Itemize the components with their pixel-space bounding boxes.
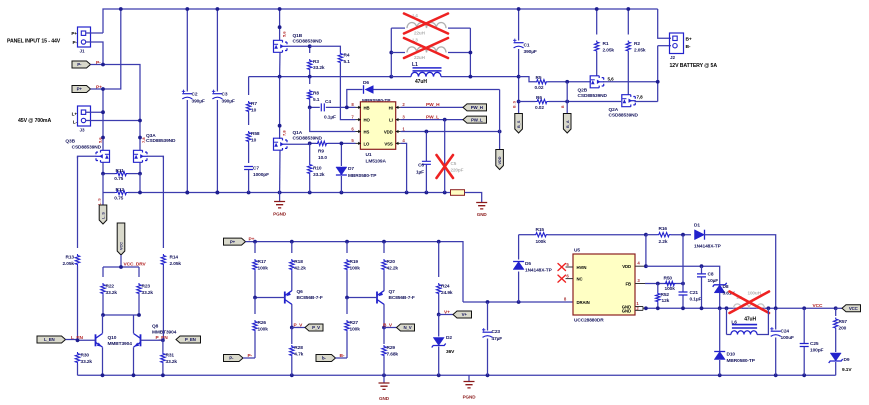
svg-text:VCC: VCC	[813, 303, 823, 309]
svg-text:PGND: PGND	[463, 395, 477, 400]
svg-text:P-: P-	[96, 60, 101, 66]
svg-text:C2: C2	[192, 92, 198, 98]
svg-text:VSS: VSS	[384, 141, 393, 146]
wire J1 P- pin down	[86, 42, 103, 65]
svg-text:C23: C23	[492, 329, 501, 335]
svg-text:LI: LI	[389, 118, 393, 123]
svg-text:DRAIN: DRAIN	[577, 300, 590, 305]
resistor R8	[309, 77, 311, 84]
resistor R9	[316, 141, 328, 145]
svg-text:C1: C1	[524, 42, 530, 48]
svg-text:7.68k: 7.68k	[387, 351, 399, 357]
svg-text:P+: P+	[96, 85, 102, 91]
svg-text:R50: R50	[664, 276, 673, 282]
svg-text:U1: U1	[366, 152, 372, 158]
svg-text:L6: L6	[731, 319, 737, 325]
svg-text:R58: R58	[251, 131, 260, 137]
wire switch-node mid rail	[249, 76, 392, 78]
capacitor C8	[701, 266, 703, 273]
svg-text:L_S: L_S	[102, 212, 106, 219]
svg-text:2.05k: 2.05k	[634, 47, 646, 53]
svg-text:45V @ 700mA: 45V @ 700mA	[18, 118, 51, 124]
svg-text:220pF: 220pF	[451, 168, 464, 173]
svg-text:L+: L+	[72, 111, 78, 116]
transistor Q6 (PNP)	[285, 291, 292, 305]
transistor Q1A	[279, 77, 281, 139]
svg-text:33.2k: 33.2k	[166, 359, 178, 365]
svg-text:CSD88539ND: CSD88539ND	[578, 93, 608, 99]
wire cross-couple row	[103, 314, 139, 316]
wire node P- to Q3A drain column	[91, 64, 104, 66]
svg-text:GND: GND	[379, 396, 390, 401]
svg-text:MMBT3904: MMBT3904	[108, 341, 133, 347]
ground PGND (main)	[279, 193, 281, 202]
resistor R3	[309, 46, 311, 53]
offpage connector V+	[453, 311, 472, 318]
resistor R20	[383, 242, 385, 253]
svg-text:47µF: 47µF	[492, 336, 503, 342]
svg-text:C25: C25	[810, 341, 819, 347]
svg-text:33.2k: 33.2k	[313, 172, 325, 178]
svg-text:P+: P+	[230, 239, 236, 244]
resistor R6 (sense)	[519, 101, 536, 103]
svg-text:HB: HB	[364, 105, 370, 110]
svg-text:Q3B: Q3B	[65, 139, 75, 145]
svg-text:PW_H: PW_H	[471, 105, 483, 110]
svg-text:P+: P+	[77, 87, 83, 92]
diode D8 (zener 5.61V)	[714, 285, 725, 293]
svg-text:R23: R23	[142, 283, 151, 289]
svg-text:5.1: 5.1	[313, 97, 320, 103]
svg-text:J3: J3	[80, 127, 85, 132]
pin HVIN (no connect, X)	[566, 266, 574, 268]
svg-text:CSD88539ND: CSD88539ND	[72, 144, 102, 150]
svg-text:L_EN: L_EN	[44, 337, 55, 342]
svg-text:VCC: VCC	[120, 242, 124, 250]
svg-text:47uH: 47uH	[744, 316, 756, 322]
svg-text:D10: D10	[727, 351, 736, 357]
pin NC (no connect, X)	[566, 278, 574, 280]
svg-text:D5: D5	[525, 261, 531, 267]
svg-text:GND: GND	[622, 309, 631, 314]
svg-text:R27: R27	[350, 320, 359, 326]
offpage connector N_V	[397, 324, 415, 331]
offpage connector VCC	[842, 305, 861, 312]
capacitor C5 (deleted)	[444, 120, 446, 193]
svg-text:R7: R7	[251, 101, 257, 107]
svg-text:10: 10	[251, 107, 257, 113]
svg-text:R31: R31	[166, 352, 175, 358]
svg-text:33.2k: 33.2k	[106, 290, 118, 296]
svg-text:100k: 100k	[258, 265, 269, 271]
svg-text:D9: D9	[844, 357, 850, 363]
resistor R16	[646, 234, 657, 236]
svg-text:R12: R12	[116, 187, 125, 193]
resistor R17	[254, 242, 256, 253]
ground PGND (lower)	[468, 375, 470, 381]
inductor L5 (deleted)	[734, 304, 765, 308]
svg-text:PW_L: PW_L	[426, 114, 439, 120]
wire to GND symbol	[465, 193, 482, 203]
resistor R31	[162, 340, 164, 352]
offpage connector P- (lower)	[224, 355, 244, 362]
wire FB riser to R16/D1 junction	[682, 235, 684, 284]
svg-text:C7: C7	[253, 166, 259, 172]
svg-text:0.02: 0.02	[535, 105, 544, 111]
svg-text:100uH: 100uH	[748, 291, 762, 296]
svg-text:100k: 100k	[258, 326, 269, 332]
svg-text:J2: J2	[670, 55, 675, 60]
offpage connector VCC (driver supply)	[117, 223, 125, 255]
svg-text:0.75: 0.75	[114, 176, 123, 182]
fuse/net-tie on PGND rail	[451, 190, 465, 196]
svg-text:C24: C24	[781, 329, 790, 335]
svg-text:D6: D6	[363, 80, 369, 86]
wire node P+ riser to rail	[91, 9, 121, 89]
svg-text:24.9k: 24.9k	[441, 290, 453, 296]
wire R4 to HO pin	[340, 64, 355, 120]
svg-text:R6: R6	[536, 95, 542, 101]
svg-text:VDD: VDD	[622, 264, 631, 269]
svg-text:R9: R9	[318, 149, 324, 155]
svg-text:7,8: 7,8	[637, 94, 644, 99]
ground GND (divider)	[383, 375, 385, 383]
svg-text:12V BATTERY @ 5A: 12V BATTERY @ 5A	[670, 63, 718, 69]
offpage connector VDD (vertical)	[496, 150, 504, 170]
svg-text:10: 10	[251, 137, 257, 143]
wire PW_L row	[401, 119, 463, 121]
wire PW_H row	[401, 106, 463, 108]
capacitor C6	[425, 132, 427, 162]
svg-text:D1: D1	[694, 223, 700, 229]
capacitor C24	[775, 308, 777, 329]
svg-text:R17: R17	[258, 259, 267, 265]
capacitor C23	[487, 302, 489, 331]
svg-text:CSD88539ND: CSD88539ND	[609, 113, 639, 119]
svg-text:0.1µF: 0.1µF	[690, 297, 702, 303]
svg-text:390µF: 390µF	[222, 99, 235, 105]
node V+	[437, 313, 441, 317]
svg-text:R10: R10	[313, 166, 322, 172]
offpage connector P_V	[305, 324, 323, 331]
svg-text:390µF: 390µF	[524, 49, 537, 55]
svg-text:0.75: 0.75	[114, 196, 123, 202]
node VCC_DRV	[120, 255, 122, 267]
wire FB net	[645, 283, 683, 285]
diode D10 MBR0580-TP	[719, 308, 721, 351]
resistor R57	[835, 308, 837, 316]
svg-text:390µF: 390µF	[192, 99, 205, 105]
svg-text:VCC: VCC	[849, 306, 859, 311]
offpage connector PW_H	[463, 104, 487, 111]
svg-text:HS: HS	[364, 130, 370, 135]
svg-text:Q1B: Q1B	[293, 33, 303, 39]
svg-text:HI: HI	[389, 105, 393, 110]
svg-text:7,8: 7,8	[282, 130, 287, 136]
svg-text:P-: P-	[77, 62, 82, 67]
connector J3 (load output)	[78, 106, 91, 126]
svg-text:Q8: Q8	[152, 323, 159, 329]
ground GND (driver)	[476, 203, 487, 209]
svg-text:4.7k: 4.7k	[294, 351, 303, 357]
svg-text:2.2k: 2.2k	[659, 239, 668, 245]
resistor R15	[519, 234, 534, 236]
svg-text:R14: R14	[170, 254, 179, 260]
wire J3 L+ to P+ column	[86, 111, 103, 113]
svg-text:L1: L1	[412, 62, 418, 68]
svg-text:R18: R18	[294, 259, 303, 265]
inductor network left riser	[390, 28, 392, 77]
wire VDD row right	[646, 266, 720, 284]
svg-text:CSD88539ND: CSD88539ND	[293, 39, 323, 45]
wire VSS drop	[401, 143, 407, 192]
svg-text:7,8: 7,8	[141, 137, 146, 143]
svg-text:0.02: 0.02	[535, 85, 544, 91]
wire P+ node down to J3/Q3B	[102, 89, 104, 138]
svg-text:C4: C4	[325, 99, 331, 105]
node B_V	[382, 326, 386, 330]
resistor R7	[248, 77, 250, 95]
offpage connector P- (top)	[72, 61, 91, 68]
svg-text:C3: C3	[222, 92, 228, 98]
svg-text:MMBT3904: MMBT3904	[152, 329, 177, 335]
connector J1 (panel input)	[78, 27, 91, 47]
op-amp U5 UCC28880DR	[573, 254, 635, 315]
svg-text:100k: 100k	[350, 265, 361, 271]
svg-text:22uH: 22uH	[414, 55, 426, 60]
resistor R29	[383, 328, 385, 345]
offpage connector P+ (top)	[72, 86, 91, 93]
wire top power rail	[103, 9, 658, 33]
svg-text:C8: C8	[708, 271, 714, 277]
svg-text:100k: 100k	[665, 286, 676, 292]
svg-text:U5: U5	[574, 247, 580, 253]
offpage connector P_EN	[176, 336, 201, 343]
svg-text:R19: R19	[350, 259, 359, 265]
svg-text:R29: R29	[387, 345, 396, 351]
diode D6 (bootstrap)	[347, 90, 363, 108]
svg-text:R2: R2	[634, 41, 640, 47]
transistor Q2B	[590, 76, 604, 88]
svg-text:10µF: 10µF	[708, 278, 719, 284]
svg-text:36V: 36V	[446, 349, 455, 355]
svg-text:Q6: Q6	[297, 289, 304, 295]
svg-text:2.05k: 2.05k	[170, 261, 182, 267]
svg-text:R28: R28	[294, 345, 303, 351]
svg-text:R13: R13	[66, 254, 75, 260]
svg-text:PW_L: PW_L	[471, 117, 483, 122]
svg-text:R24: R24	[441, 283, 450, 289]
svg-text:LM5109A: LM5109A	[366, 159, 387, 165]
svg-text:1N4148X-TP: 1N4148X-TP	[525, 268, 553, 274]
svg-text:42.2k: 42.2k	[294, 265, 306, 271]
svg-text:100k: 100k	[350, 326, 361, 332]
inductor L3 (deleted)	[391, 52, 405, 54]
svg-text:47uH: 47uH	[415, 79, 427, 85]
svg-text:B_S: B_S	[517, 120, 521, 128]
svg-text:R30: R30	[81, 352, 90, 358]
pin GND stubs	[635, 307, 646, 311]
svg-text:L_S: L_S	[98, 198, 102, 205]
svg-text:5,6: 5,6	[282, 31, 287, 37]
svg-text:PGND: PGND	[273, 212, 287, 217]
svg-text:33.2k: 33.2k	[313, 65, 325, 71]
svg-text:B_S: B_S	[513, 100, 517, 108]
wire VDD riser to R15/R16 row	[645, 235, 647, 267]
svg-text:R52: R52	[661, 292, 670, 298]
resistor R28	[291, 328, 293, 345]
pin VDD stub	[635, 265, 646, 267]
svg-text:5,6: 5,6	[98, 137, 103, 143]
svg-text:2.05k: 2.05k	[62, 261, 74, 267]
offpage connector L_S	[102, 193, 104, 207]
resistor R10	[309, 143, 311, 163]
svg-text:R16: R16	[659, 226, 668, 232]
resistor R24	[438, 242, 440, 277]
node P- junction	[101, 63, 105, 67]
svg-text:FB: FB	[625, 281, 631, 286]
svg-text:PW_H: PW_H	[426, 102, 440, 108]
svg-text:PANEL INPUT 15 - 44V: PANEL INPUT 15 - 44V	[7, 38, 61, 44]
svg-text:VDD: VDD	[498, 156, 502, 164]
svg-text:R1: R1	[603, 41, 609, 47]
wire PGND rail with R12	[102, 174, 104, 193]
svg-text:100k: 100k	[536, 239, 547, 245]
svg-text:R5: R5	[536, 75, 542, 81]
offpage connector L_EN	[37, 336, 66, 343]
diode D2 (zener 36V)	[438, 315, 440, 337]
wire J3 L- to Q3A column	[86, 120, 140, 122]
svg-text:22uH: 22uH	[414, 31, 426, 36]
svg-text:Q3A: Q3A	[146, 133, 156, 139]
svg-text:1N4148X-TP: 1N4148X-TP	[694, 244, 722, 250]
capacitor C21	[682, 284, 684, 292]
transistor Q3B	[96, 150, 110, 162]
transistor Q7 (PNP)	[377, 291, 384, 305]
capacitor C7	[244, 167, 253, 170]
svg-text:UCC28880DR: UCC28880DR	[574, 317, 604, 323]
op-amp U1 gate driver LM5109A	[360, 102, 395, 150]
wire battery B- branch	[657, 46, 659, 102]
resistor R14	[162, 156, 164, 248]
svg-text:P+: P+	[71, 31, 77, 36]
svg-text:R11: R11	[116, 168, 125, 174]
svg-text:B: B	[561, 105, 565, 108]
resistor R26	[254, 298, 256, 315]
svg-text:B_A: B_A	[566, 120, 570, 128]
diode D9 (zener 9.1V)	[830, 353, 841, 361]
resistor R30	[75, 352, 79, 364]
svg-text:Q7: Q7	[389, 289, 396, 295]
capacitor C25	[803, 308, 805, 343]
inductor L6	[726, 308, 728, 334]
resistor R23	[138, 267, 140, 277]
svg-text:B+: B+	[686, 37, 692, 43]
inductor L4 (deleted)	[391, 27, 405, 29]
svg-text:Q2A: Q2A	[609, 107, 619, 113]
svg-text:Q2B: Q2B	[578, 88, 588, 94]
svg-text:N_V: N_V	[403, 325, 411, 330]
resistor R2	[627, 9, 629, 35]
resistor R27	[346, 298, 348, 315]
svg-text:D7: D7	[348, 166, 354, 172]
svg-text:5,6: 5,6	[608, 77, 615, 82]
svg-text:J1: J1	[80, 48, 85, 53]
capacitor C1	[518, 9, 520, 41]
diode D7	[340, 143, 342, 166]
transistor Q10	[96, 334, 103, 348]
resistor R4	[310, 46, 341, 52]
svg-text:9.1V: 9.1V	[842, 367, 852, 373]
svg-text:42.2k: 42.2k	[387, 265, 399, 271]
svg-text:b-: b-	[322, 356, 327, 361]
svg-text:R4: R4	[344, 52, 350, 58]
svg-text:5.1: 5.1	[344, 59, 351, 65]
resistor R1	[596, 9, 598, 35]
svg-text:33.2k: 33.2k	[142, 290, 154, 296]
resistor R18	[291, 242, 293, 253]
svg-text:CSD88539ND: CSD88539ND	[146, 138, 176, 144]
svg-text:200: 200	[839, 326, 847, 332]
svg-text:MBR0580-TP: MBR0580-TP	[348, 173, 377, 179]
svg-text:NC: NC	[577, 276, 583, 281]
svg-text:B-: B-	[686, 44, 691, 50]
wire lower P+ rail	[224, 238, 246, 245]
svg-text:R57: R57	[839, 319, 848, 325]
node P+ junction	[101, 87, 105, 91]
pin FB stub	[635, 283, 645, 285]
svg-text:C21: C21	[690, 290, 699, 296]
svg-text:BC856B-7-F: BC856B-7-F	[297, 295, 323, 301]
svg-text:0.1µF: 0.1µF	[324, 114, 336, 120]
svg-text:10.0: 10.0	[318, 155, 327, 161]
svg-text:R26: R26	[258, 320, 267, 326]
svg-text:R3: R3	[313, 59, 319, 65]
svg-text:Q10: Q10	[108, 335, 117, 341]
wire VDD row	[401, 131, 500, 133]
svg-text:33.2k: 33.2k	[81, 359, 93, 365]
offpage connector B_A (vertical)	[566, 82, 568, 114]
resistor R12	[115, 190, 128, 194]
svg-text:P_EN: P_EN	[185, 337, 196, 342]
resistor R50	[664, 281, 676, 285]
svg-text:100pF: 100pF	[810, 348, 824, 354]
svg-text:Q1A: Q1A	[293, 130, 303, 136]
svg-text:1µF: 1µF	[416, 169, 424, 175]
wire HS pin feed	[310, 107, 356, 131]
svg-text:P-: P-	[73, 40, 78, 45]
svg-text:R20: R20	[387, 259, 396, 265]
offpage connector PW_L	[463, 116, 487, 123]
svg-text:2.05k: 2.05k	[603, 47, 615, 53]
transistor Q1B	[279, 9, 281, 40]
offpage connector B- (lower)	[316, 355, 336, 362]
wire battery B+ branch	[658, 9, 671, 38]
wire VCC row	[646, 307, 836, 309]
resistor R19	[346, 242, 348, 253]
svg-text:R8: R8	[313, 90, 319, 96]
inductor L1	[391, 76, 411, 78]
svg-text:BC856B-7-F: BC856B-7-F	[389, 295, 415, 301]
inductor network right riser	[469, 28, 471, 77]
svg-text:100uF: 100uF	[781, 335, 795, 341]
svg-text:R15: R15	[536, 227, 545, 233]
resistor R13	[77, 156, 79, 248]
svg-text:HVIN: HVIN	[577, 265, 587, 270]
wire bottom ground rail	[78, 374, 836, 376]
capacitor C2	[186, 9, 188, 92]
offpage connector B_S (vertical)	[515, 114, 523, 134]
